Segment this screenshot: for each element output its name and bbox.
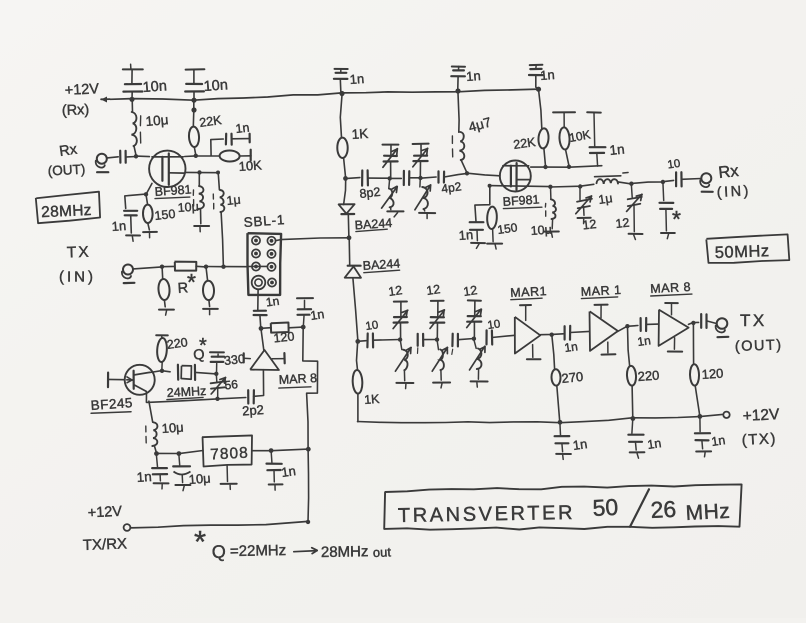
junction amp1 out xyxy=(550,333,554,337)
svg-text:1μ: 1μ xyxy=(597,191,613,207)
resistor R9 10K xyxy=(553,112,575,167)
junction rail-1K xyxy=(339,91,344,96)
junction source1 xyxy=(144,192,148,196)
svg-text:1n: 1n xyxy=(540,67,555,83)
wire drain2 xyxy=(531,166,602,168)
resistor R7 1K xyxy=(337,94,348,179)
junction txfilt2 xyxy=(435,337,439,341)
label C29 2p2 xyxy=(242,402,265,418)
junction drain2-10K xyxy=(567,165,571,169)
svg-text:(Rx): (Rx) xyxy=(62,102,90,119)
label C13 1n xyxy=(609,141,626,157)
svg-text:1n: 1n xyxy=(235,121,250,136)
junction amp3 out xyxy=(691,321,695,325)
wire 1K to diodes xyxy=(344,178,346,204)
wire coil to j xyxy=(618,182,631,184)
wire C29 to amp in xyxy=(254,370,264,397)
capacitor C17 10 xyxy=(358,334,373,348)
svg-text:1n: 1n xyxy=(111,218,126,234)
capacitor CT3 trimmer 12 xyxy=(576,186,592,215)
inductor L7 10u choke xyxy=(146,401,158,454)
svg-text:MAR 8: MAR 8 xyxy=(278,371,317,387)
junction rxfilt1 xyxy=(388,176,392,180)
svg-text:+12V: +12V xyxy=(87,504,122,522)
svg-text:1n: 1n xyxy=(280,463,296,480)
label MAR1 #2 xyxy=(580,283,621,299)
label R2 10K xyxy=(238,157,262,174)
amp A4 stubs xyxy=(244,353,285,363)
label R14 120 xyxy=(701,366,724,382)
wire gate2 source line xyxy=(185,171,218,173)
capacitor C16 10 coupling xyxy=(663,172,701,186)
svg-text:=22MHz: =22MHz xyxy=(230,542,287,560)
ground C32 xyxy=(175,485,190,491)
wire gate2 in xyxy=(467,173,500,176)
capacitor C15 star xyxy=(660,182,674,231)
wire 7808 out xyxy=(252,449,309,451)
label BF981 #1 xyxy=(154,182,192,199)
wire txline e xyxy=(570,331,589,332)
capacitor C22 1n xyxy=(641,318,647,331)
capacitor C23 coupling xyxy=(701,314,706,328)
svg-text:Rx: Rx xyxy=(718,162,741,182)
terminal TX OUT xyxy=(716,318,729,337)
capacitor C19 xyxy=(452,334,458,355)
label Rx (OUT) xyxy=(47,142,85,179)
wire rxline b xyxy=(368,177,390,179)
svg-text:BF981: BF981 xyxy=(502,192,540,209)
transistor U1 BF981 xyxy=(149,151,185,187)
junction supply corner xyxy=(306,520,310,524)
label C12 4p2 xyxy=(440,179,462,196)
junction txrail c xyxy=(698,414,703,419)
svg-text:1n: 1n xyxy=(265,294,280,310)
svg-text:220: 220 xyxy=(166,335,189,352)
amplifier A3 MAR8 xyxy=(659,303,689,352)
capacitor C1 10n xyxy=(123,64,143,99)
resistor R11 1K xyxy=(352,341,363,421)
svg-text:*: * xyxy=(672,206,681,232)
resistor R12 270 xyxy=(551,335,560,423)
svg-text:MHz: MHz xyxy=(685,500,731,525)
wire +12V RX rail xyxy=(110,89,539,100)
svg-text:(IN): (IN) xyxy=(716,183,751,201)
ground LT1 xyxy=(387,211,403,217)
terminal RX IN xyxy=(700,173,712,192)
svg-text:1n: 1n xyxy=(636,333,651,349)
wire osc line xyxy=(147,398,246,403)
inductor L1 10u choke xyxy=(132,99,141,156)
label R7 1K xyxy=(351,126,369,142)
resistor R14 120 xyxy=(690,323,700,417)
wire drain Q2 xyxy=(150,371,162,373)
capacitor C6 coupling xyxy=(107,151,136,163)
junction amp4 out xyxy=(259,326,264,331)
capacitor C27 330 xyxy=(210,352,224,374)
label 12 c xyxy=(462,283,478,299)
label C10 8p2 xyxy=(359,185,381,201)
svg-text:330: 330 xyxy=(223,352,245,368)
junction source2 trim xyxy=(578,184,582,188)
inductor LT2 variable xyxy=(415,178,431,211)
ground LT3 xyxy=(396,383,413,389)
svg-text:1n: 1n xyxy=(458,227,473,243)
svg-text:12: 12 xyxy=(462,283,478,299)
wire MAR8 box outline xyxy=(303,327,318,449)
junction rail-C2 xyxy=(191,98,196,103)
inductor LT5 variable xyxy=(470,339,486,379)
junction L3-TXline xyxy=(221,265,225,269)
wire 7808 gnd xyxy=(226,466,228,482)
capacitor C33 1n xyxy=(267,451,282,482)
label L5 10u xyxy=(530,223,552,238)
capacitor C5 1n xyxy=(529,65,543,89)
wire txline b xyxy=(423,339,437,341)
svg-text:10: 10 xyxy=(487,318,501,332)
capacitor C10 8p2 xyxy=(362,170,368,185)
label note Q=22MHz xyxy=(211,542,286,562)
resistor R13 220 xyxy=(626,326,636,418)
ground LT5 xyxy=(471,381,488,387)
label TX (IN) xyxy=(59,244,96,286)
inductor LT4 variable xyxy=(432,340,447,381)
junction TX line left xyxy=(355,339,360,344)
capacitor C8 1n xyxy=(124,194,146,233)
wire gate Q2 xyxy=(108,373,125,388)
label C20 10 xyxy=(487,318,501,332)
junction drain2-22K xyxy=(543,165,547,169)
wire amp3 out xyxy=(689,322,699,324)
amplifier A2 MAR1 xyxy=(590,305,618,355)
ground CT4 xyxy=(629,234,643,240)
capacitor C31 1n xyxy=(152,454,167,481)
svg-text:1n: 1n xyxy=(563,339,578,355)
ground C14 xyxy=(471,243,485,249)
label C7 1n xyxy=(235,121,250,136)
junction txrail a xyxy=(558,420,563,425)
capacitor C25 1n xyxy=(628,419,643,450)
junction rxout cap xyxy=(661,180,665,184)
wire supply riser xyxy=(307,449,310,522)
label 50MHz box xyxy=(706,234,789,263)
capacitor CT2 trimmer xyxy=(413,144,429,178)
resistor R3 150 xyxy=(143,194,153,230)
resistor R15 220 xyxy=(156,335,168,370)
transistor Q2 BF245 xyxy=(125,365,155,395)
wire txline f xyxy=(646,323,659,325)
capacitor C26 1n xyxy=(695,417,710,449)
junction drain1 xyxy=(194,154,198,158)
label 50/26 MHz xyxy=(592,489,731,527)
wire amp4 out xyxy=(261,328,264,350)
svg-text:SBL-1: SBL-1 xyxy=(243,212,285,230)
label C28 56 xyxy=(224,377,239,392)
diode D2 BA244 xyxy=(345,266,361,278)
label C16 10 xyxy=(667,158,681,172)
junction gate2-L2 xyxy=(197,170,201,174)
junction rail-C1 xyxy=(129,97,134,102)
capacitor C12 4p2 xyxy=(439,171,445,182)
wire txline c xyxy=(458,339,474,340)
junction RX mixer node xyxy=(343,176,348,181)
label C14 1n xyxy=(458,227,473,243)
ground CT3 xyxy=(578,218,591,224)
label C8 1n xyxy=(111,218,126,234)
svg-text:7808: 7808 xyxy=(210,445,249,464)
label MAR1 #1 xyxy=(510,284,547,300)
wire to 7808 xyxy=(179,451,203,454)
junction pad left xyxy=(160,265,164,269)
capacitor C3 1n xyxy=(334,69,348,94)
junction R16 right xyxy=(301,325,306,330)
wire +12V TX rail xyxy=(358,414,723,422)
wire D1 to IF node xyxy=(347,214,350,238)
svg-text:270: 270 xyxy=(561,369,584,386)
label C4 1n xyxy=(466,68,481,84)
label C1 10n xyxy=(142,78,167,96)
svg-text:1μ: 1μ xyxy=(226,193,242,208)
svg-text:1n: 1n xyxy=(572,436,588,453)
wire Q2 source xyxy=(145,392,147,402)
junction IF node xyxy=(347,235,352,240)
svg-text:10: 10 xyxy=(667,158,681,172)
junction gate node 2 xyxy=(465,171,469,175)
ground R3 xyxy=(143,232,157,238)
wire rxline c xyxy=(390,177,402,179)
svg-text:10μ: 10μ xyxy=(161,419,184,435)
label SBL-1 xyxy=(243,212,285,230)
wire rxline e xyxy=(421,177,437,178)
capacitor C2 10n xyxy=(185,69,204,100)
svg-text:10n: 10n xyxy=(203,77,228,95)
label L2 10u xyxy=(177,200,199,215)
ground C15 xyxy=(661,233,675,239)
ground L5 xyxy=(544,232,559,238)
label C21 1n xyxy=(563,339,578,355)
junction 7808 cap xyxy=(269,448,274,453)
svg-text:1K: 1K xyxy=(351,126,369,142)
capacitor C4 1n xyxy=(451,66,465,91)
svg-text:(IN): (IN) xyxy=(59,269,96,286)
label BF245 xyxy=(90,395,133,413)
label R11 1K xyxy=(364,392,381,407)
transistor U2 BF981 xyxy=(500,161,531,192)
capacitor C20 10 xyxy=(487,330,493,344)
label C32 10u xyxy=(188,470,211,486)
label 12 a xyxy=(387,283,403,299)
ground U3 xyxy=(221,484,237,490)
label note asterisk xyxy=(194,524,206,559)
svg-text:TRANSVERTER: TRANSVERTER xyxy=(398,502,576,527)
terminal TX IN xyxy=(122,265,134,284)
label L6 1u xyxy=(597,191,613,207)
capacitor C30 1n xyxy=(297,298,313,327)
wire source1 down xyxy=(146,183,152,194)
label C30 1n xyxy=(309,307,325,323)
svg-text:8p2: 8p2 xyxy=(359,185,381,201)
wire SBL-1 LO pin xyxy=(257,289,259,309)
label note arrow xyxy=(294,548,317,554)
capacitor C13 1n xyxy=(587,112,605,166)
svg-text:(OUT): (OUT) xyxy=(735,337,783,355)
junction source2-L5 xyxy=(548,185,552,189)
crystal X1 24MHz xyxy=(162,365,217,380)
corner source2 xyxy=(488,184,492,188)
junction 7808 out node xyxy=(306,447,311,452)
svg-text:120: 120 xyxy=(273,329,295,345)
resistor R5 pad series xyxy=(162,262,206,271)
inductor L3 1u xyxy=(213,172,224,267)
capacitor CT1 trimmer xyxy=(383,145,399,179)
svg-text:1K: 1K xyxy=(364,392,381,407)
ground C33 xyxy=(269,484,283,490)
wire drain1 xyxy=(185,155,196,158)
wire to TX out xyxy=(707,321,716,324)
label L1 10u xyxy=(145,112,169,129)
svg-text:12: 12 xyxy=(387,283,403,299)
label R15 220 xyxy=(166,335,189,352)
terminal +12V TX xyxy=(723,412,729,418)
wire txline a xyxy=(373,339,400,342)
wire TX in xyxy=(133,267,162,269)
label C22 1n xyxy=(636,333,651,349)
junction osc supply b xyxy=(177,451,182,456)
wire gate1 xyxy=(136,155,149,158)
mixer SBL-1 xyxy=(248,233,282,295)
terminal +12V TX/RX xyxy=(124,524,131,531)
diode D1 BA244 xyxy=(339,204,355,214)
wire amp1 out xyxy=(541,333,564,336)
svg-text:1n: 1n xyxy=(349,71,364,87)
wire IF to D2 xyxy=(348,238,351,265)
wire SBL-1 IF line xyxy=(281,238,349,240)
svg-text:150: 150 xyxy=(496,220,518,237)
junction gate2 corner xyxy=(216,171,220,175)
label MAR8 #1 xyxy=(278,371,317,388)
junction osc line xyxy=(215,397,219,401)
junction pad right xyxy=(204,265,208,269)
junction osc supply a xyxy=(154,451,159,456)
terminal +12V (RX) xyxy=(101,97,110,103)
label 12 b xyxy=(425,282,441,298)
capacitor C21 1n xyxy=(565,326,571,340)
inductor L5 10u xyxy=(545,187,556,229)
label +12V (RX) xyxy=(62,81,100,119)
svg-text:1n: 1n xyxy=(136,469,152,485)
junction txfilt1 xyxy=(398,337,402,341)
ground LT2 xyxy=(419,213,435,219)
label MAR8 #2 xyxy=(650,280,692,296)
svg-text:*: * xyxy=(199,335,207,357)
amplifier A1 MAR1 xyxy=(515,305,541,359)
junction rail-L4u7 xyxy=(455,88,460,93)
svg-text:26: 26 xyxy=(650,496,677,523)
svg-text:150: 150 xyxy=(154,207,176,223)
capacitor C9 1n LO xyxy=(254,311,267,329)
inductor LT3 variable xyxy=(395,340,411,381)
svg-text:BF245: BF245 xyxy=(90,395,133,413)
ground LT4 xyxy=(433,383,450,388)
label +12V TX/RX xyxy=(83,504,128,554)
svg-text:+12V: +12V xyxy=(742,406,780,425)
svg-text:TX: TX xyxy=(740,311,767,330)
label L3 1u xyxy=(226,193,242,208)
resistor R2 10K xyxy=(220,150,240,161)
svg-text:10μ: 10μ xyxy=(145,112,169,129)
svg-text:Q: Q xyxy=(211,542,226,562)
label R10 150 xyxy=(496,220,518,237)
inductor LT1 variable xyxy=(382,178,398,209)
label 28MHz box xyxy=(36,192,101,224)
ground C24 xyxy=(556,454,571,460)
resistor R4 pad shunt xyxy=(158,267,170,307)
label BA244 #2 xyxy=(362,256,400,273)
label +12V (TX) xyxy=(741,406,780,449)
wire D2 to TX line xyxy=(353,278,358,341)
label L4 4u7 xyxy=(467,115,493,135)
capacitor C29 2p2 xyxy=(248,390,254,403)
svg-text:10μ: 10μ xyxy=(530,223,552,238)
label BA244 #1 xyxy=(354,216,392,233)
ground C31 xyxy=(154,483,169,489)
junction Q2 drain xyxy=(160,369,164,373)
svg-text:50MHz: 50MHz xyxy=(715,242,770,262)
svg-text:1n: 1n xyxy=(609,141,626,157)
label TRANSVERTER box xyxy=(384,484,741,529)
label R16 120 xyxy=(273,329,295,345)
label R3 150 xyxy=(154,207,176,223)
svg-text:Rx: Rx xyxy=(58,142,79,160)
ground R10 xyxy=(487,244,502,249)
wire j to corner xyxy=(631,182,663,184)
wire drain1 to R2 xyxy=(196,155,220,157)
wire rxline a xyxy=(345,178,360,179)
svg-text:120: 120 xyxy=(701,366,724,382)
capacitor C14 1n xyxy=(470,186,490,241)
label C2 10n xyxy=(203,77,228,95)
ground R6 xyxy=(203,309,218,315)
capacitor CT7 trimmer xyxy=(467,300,482,338)
label R9 10K xyxy=(568,127,591,144)
ground L2 xyxy=(194,226,209,232)
svg-text:(OUT): (OUT) xyxy=(47,162,85,179)
label RX (IN) xyxy=(716,162,751,201)
wire rxline f xyxy=(444,173,467,177)
svg-text:220: 220 xyxy=(637,368,660,384)
label R8 22K xyxy=(512,135,537,152)
wire txline d xyxy=(492,335,515,337)
junction txfilt3 xyxy=(472,337,476,341)
svg-text:50: 50 xyxy=(592,494,619,521)
label R13 220 xyxy=(637,368,660,384)
ground C8 xyxy=(126,235,140,241)
wire to SBL-1 xyxy=(224,266,248,268)
junction rxfilt2 xyxy=(418,176,422,180)
svg-text:4p2: 4p2 xyxy=(440,179,462,196)
label R* pad xyxy=(177,269,196,297)
svg-text:(TX): (TX) xyxy=(741,430,777,449)
svg-text:28MHz: 28MHz xyxy=(41,202,92,221)
ground R4 xyxy=(159,310,174,316)
capacitor C11 xyxy=(404,171,410,185)
svg-text:1n: 1n xyxy=(646,436,662,452)
svg-text:*: * xyxy=(194,524,206,559)
label C15 * xyxy=(672,206,681,232)
terminal RX OUT xyxy=(96,154,109,173)
inductor L2 10u xyxy=(193,172,204,223)
wire amp2 out xyxy=(618,326,638,332)
capacitor CT5 trimmer xyxy=(393,301,408,339)
